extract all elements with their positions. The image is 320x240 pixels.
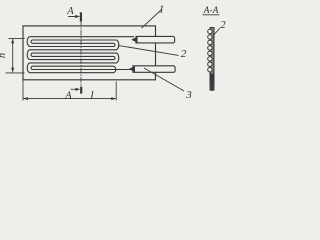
wire c7 (208, 62, 212, 66)
wire c1 (208, 29, 212, 33)
right loop group 2 outer (L6-L9) (116, 53, 119, 63)
l left extension (plate edge extended) (22, 80, 24, 101)
A-A underline (203, 14, 220, 16)
leader 2 (section) (212, 28, 221, 38)
l dimension line (23, 98, 116, 100)
upper strip tip wedge (131, 37, 137, 43)
right loop group 1 inner (L3-L4) (114, 43, 116, 46)
wire c4 (208, 46, 212, 50)
l arrow right (111, 97, 116, 100)
run L1 (30, 36, 134, 38)
leader 1 (142, 10, 162, 29)
plate bar bottom taper (210, 74, 214, 91)
paper background (0, 0, 237, 110)
h dimension line (12, 39, 14, 73)
svg-text:3: 3 (185, 89, 192, 101)
section tick bottom (80, 87, 82, 94)
l right extension (115, 82, 117, 101)
wire cross-sections (208, 29, 212, 72)
svg-text:A: A (66, 6, 74, 17)
wire c5 (208, 51, 212, 55)
section centerline A-A (dash-dot vertical) (80, 21, 82, 87)
lower strip tip wedge (129, 66, 135, 72)
h arrow down (11, 68, 14, 73)
right loop group 3 outer (L10-L12) (114, 66, 116, 73)
section tick top (80, 12, 82, 21)
base plate section bar (210, 28, 214, 90)
run L6 (33, 52, 117, 54)
leader 2 (118, 45, 179, 55)
wire c6 (208, 57, 212, 61)
run L2 (33, 39, 117, 41)
dimension h (6, 39, 25, 73)
section arrowhead top (75, 15, 80, 18)
run L11 (33, 69, 131, 71)
svg-text:h: h (0, 53, 8, 58)
run L9 (30, 62, 116, 64)
wire grid (element 2): horizontal runs (27, 37, 134, 73)
h extension top (9, 38, 25, 40)
section arrowhead bottom (76, 88, 81, 91)
run L10 (33, 65, 114, 67)
svg-text:A: A (64, 90, 72, 101)
left loop group 3 outer (L9-L12) (27, 63, 30, 73)
run L7 (33, 55, 114, 57)
svg-text:2: 2 (181, 48, 187, 60)
svg-text:2: 2 (220, 20, 226, 31)
run L8 (30, 59, 114, 61)
base plate (element 1) (23, 26, 156, 80)
right loop group 1 outer (L2-L5) (116, 40, 119, 50)
left loop group 2 inner (L6-L7) (31, 53, 33, 56)
h extension bottom (6, 72, 25, 74)
leader 3 (144, 68, 184, 91)
svg-text:l: l (90, 90, 93, 102)
h arrow up (11, 39, 14, 44)
wire c2 (208, 35, 212, 39)
section arrow top (69, 16, 77, 18)
left loop group 1 inner (L2-L3) (31, 40, 32, 43)
svg-text:A-A: A-A (203, 6, 219, 16)
wire c3 (208, 40, 212, 44)
l arrow left (23, 97, 28, 100)
dimension l (23, 80, 116, 101)
wire c8 (208, 68, 212, 72)
run L5 (30, 49, 116, 51)
run L3 (33, 42, 114, 44)
left loop group 1 outer (L1-L4) (27, 37, 30, 47)
run L4 (30, 46, 114, 48)
section arrow bottom (71, 88, 78, 90)
lead strip upper (element 3a) (131, 36, 174, 43)
left loop group 2 outer (L5-L8) (27, 50, 30, 60)
lead strip lower (element 3) (129, 66, 175, 73)
run L12 (30, 72, 114, 74)
svg-text:1: 1 (159, 4, 165, 16)
right loop group 2 inner (L7-L8) (114, 56, 116, 59)
left loop group 3 inner (L10-L11) (31, 66, 32, 69)
